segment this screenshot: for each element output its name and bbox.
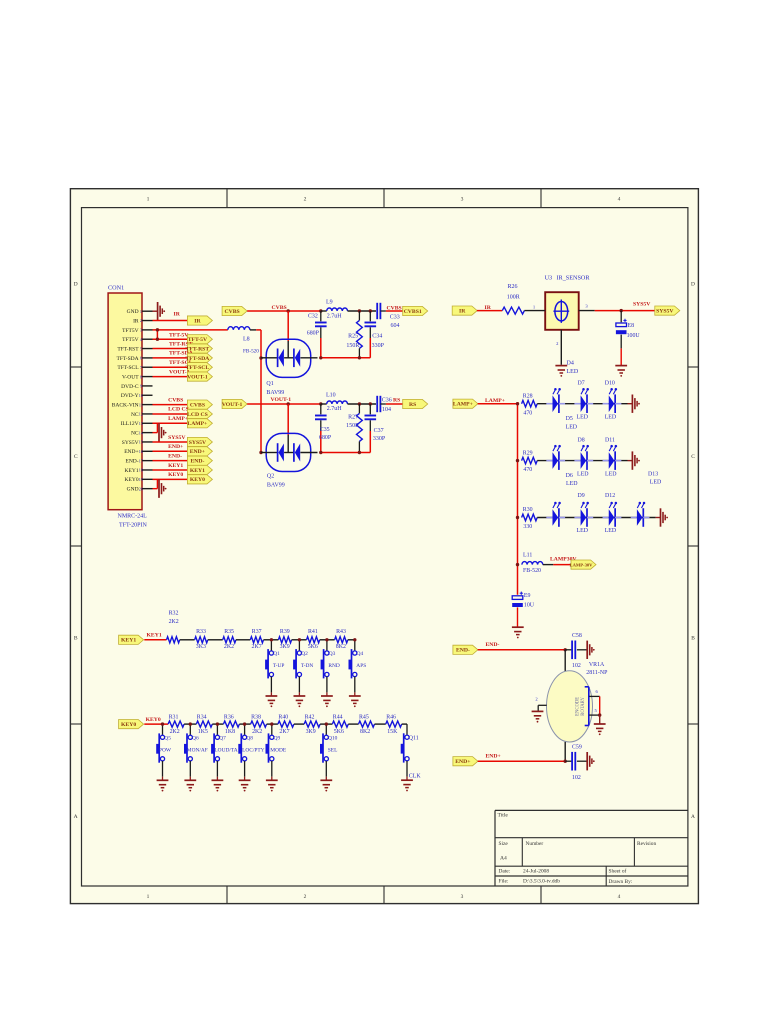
key switch Q3 RND <box>321 638 340 707</box>
svg-text:6: 6 <box>140 356 142 361</box>
svg-text:LED: LED <box>566 481 578 487</box>
svg-text:LAMP+: LAMP+ <box>168 416 188 422</box>
U3 pin 2 <box>556 330 561 365</box>
svg-text:END-: END- <box>125 459 138 465</box>
port TFT-RST <box>186 344 213 353</box>
svg-text:END+: END+ <box>190 449 205 455</box>
svg-text:BAV99: BAV99 <box>267 483 285 489</box>
key switch Q10 SEL <box>320 722 338 791</box>
wire L9 to C33 <box>348 309 377 312</box>
svg-text:3: 3 <box>461 197 464 203</box>
svg-text:IR_SENSOR: IR_SENSOR <box>557 274 591 281</box>
svg-text:102: 102 <box>572 775 581 781</box>
svg-text:2: 2 <box>140 318 142 323</box>
svg-text:FB-520: FB-520 <box>243 349 259 355</box>
VR1A pin 5 <box>589 708 599 715</box>
svg-text:BACK-VIN: BACK-VIN <box>112 403 139 409</box>
capacitor C33 <box>377 303 404 329</box>
wire END+ from pin 16 <box>153 450 188 452</box>
resistor R26 <box>502 284 524 314</box>
svg-text:E8: E8 <box>628 323 635 329</box>
svg-text:104: 104 <box>382 407 391 413</box>
wire KEY1 end corner <box>348 639 355 641</box>
svg-text:LED: LED <box>577 472 589 478</box>
capacitor E8 <box>616 311 641 365</box>
wire segment before R43 <box>320 639 335 641</box>
svg-text:LAMP+: LAMP+ <box>187 421 207 427</box>
svg-text:Number: Number <box>526 841 544 847</box>
svg-text:LED: LED <box>566 424 578 430</box>
svg-text:8: 8 <box>140 374 142 379</box>
wire L11 to port <box>543 564 571 566</box>
capacitor C59 <box>565 744 587 781</box>
svg-text:LED: LED <box>577 414 589 420</box>
svg-text:RS: RS <box>409 402 416 408</box>
svg-text:ILL12V: ILL12V <box>121 421 139 427</box>
LED D7 row y403 pos 2 <box>574 388 593 413</box>
key switch Q11 CLK <box>401 724 422 791</box>
svg-text:LED: LED <box>605 414 617 420</box>
svg-text:KEY1: KEY1 <box>168 463 183 469</box>
svg-text:C: C <box>691 454 695 460</box>
svg-text:3K9: 3K9 <box>306 729 316 735</box>
svg-text:BAV99: BAV99 <box>266 390 284 396</box>
svg-text:R39: R39 <box>280 629 290 635</box>
svg-text:LOUD/TA: LOUD/TA <box>214 747 237 753</box>
capacitor C37 <box>365 404 386 453</box>
wire CVBS from pin 11 <box>153 404 188 406</box>
svg-text:NMRC-24L: NMRC-24L <box>118 514 148 520</box>
svg-text:CVBS1: CVBS1 <box>387 305 405 311</box>
svg-text:LAMP-30V: LAMP-30V <box>570 563 594 568</box>
svg-text:CVBS: CVBS <box>190 403 205 409</box>
svg-text:2K2: 2K2 <box>169 619 179 625</box>
svg-text:D5: D5 <box>566 416 573 422</box>
svg-text:C36: C36 <box>382 398 392 404</box>
svg-text:D13: D13 <box>648 472 658 478</box>
wire TFT-SDA from pin 6 <box>153 357 188 359</box>
svg-text:C34: C34 <box>372 334 382 340</box>
port TFT-5V <box>187 335 212 344</box>
svg-text:330P: 330P <box>372 343 385 349</box>
port END+ <box>187 447 212 456</box>
svg-text:R33: R33 <box>196 629 206 635</box>
svg-text:24-Jul-2008: 24-Jul-2008 <box>523 869 549 875</box>
svg-text:RS: RS <box>393 397 400 403</box>
svg-text:T-UP: T-UP <box>273 663 284 669</box>
svg-text:8K2: 8K2 <box>336 644 346 650</box>
svg-text:END+: END+ <box>168 444 183 450</box>
label END- <box>486 642 500 648</box>
label END+ <box>168 444 183 450</box>
svg-text:TFT5V: TFT5V <box>122 337 139 343</box>
svg-text:A: A <box>691 814 695 820</box>
svg-text:SYS5V: SYS5V <box>656 309 674 315</box>
label KEY0 (row) <box>146 717 161 723</box>
label LCD CS <box>168 407 189 413</box>
svg-text:L11: L11 <box>523 552 532 558</box>
svg-text:IR: IR <box>133 318 139 324</box>
svg-text:ROTARY: ROTARY <box>581 696 586 715</box>
svg-text:Q2: Q2 <box>301 651 308 657</box>
svg-text:Revision: Revision <box>637 841 656 847</box>
wire bottom rail filter2 <box>319 451 370 454</box>
svg-text:END-: END- <box>456 648 470 654</box>
port LAMP-30V <box>570 560 596 569</box>
svg-text:Q11: Q11 <box>409 735 419 741</box>
svg-text:KEY0: KEY0 <box>125 477 139 483</box>
wire TFT5V pin4 <box>153 338 188 340</box>
svg-text:1: 1 <box>147 197 150 203</box>
label SYS5V <box>633 301 651 307</box>
svg-text:Q2: Q2 <box>267 474 274 480</box>
svg-text:1: 1 <box>147 894 150 900</box>
wire segment before R44 <box>320 723 332 725</box>
wire L9 segment black <box>321 310 327 312</box>
capacitor E9 <box>512 592 535 627</box>
resistor R30 <box>522 507 538 530</box>
port END- <box>187 456 212 465</box>
svg-text:3: 3 <box>140 328 142 333</box>
port LCD CS <box>187 409 212 418</box>
svg-text:LED: LED <box>605 472 617 478</box>
resistor R29 <box>522 450 538 473</box>
svg-text:KEY1: KEY1 <box>121 638 136 644</box>
label LAMP+ <box>168 416 188 422</box>
svg-text:150R: 150R <box>346 423 359 429</box>
ground VR1A pin 5 <box>594 724 606 735</box>
port TFT-SCL <box>186 363 213 372</box>
svg-text:R27: R27 <box>348 415 358 421</box>
svg-text:NC: NC <box>131 431 139 437</box>
svg-text:680P: 680P <box>319 435 332 441</box>
inductor L10 <box>326 393 348 413</box>
label KEY1 <box>168 463 183 469</box>
VR1A pin 6 <box>589 689 599 697</box>
svg-text:102: 102 <box>572 663 581 669</box>
wire END- <box>478 648 567 651</box>
svg-text:CVBS: CVBS <box>168 397 183 403</box>
svg-text:KEY1: KEY1 <box>190 468 205 474</box>
svg-text:IR: IR <box>459 309 466 315</box>
diode network Q1 BAV99 <box>261 339 318 396</box>
ground LED row y517 <box>656 508 668 526</box>
svg-text:LED: LED <box>577 528 589 534</box>
wire LAMP+ from pin 13 <box>153 422 188 424</box>
svg-text:R37: R37 <box>252 629 262 635</box>
LED D5 row y403 pos 1 <box>546 388 565 413</box>
svg-text:SYS5V: SYS5V <box>189 440 207 446</box>
capacitor C36 <box>377 396 403 413</box>
svg-text:LAMP+: LAMP+ <box>453 402 473 408</box>
inner border frame <box>82 208 688 886</box>
svg-text:2.7uH: 2.7uH <box>327 313 343 319</box>
label END+ <box>486 753 501 759</box>
svg-text:1: 1 <box>140 309 142 314</box>
wire KEY1 start <box>144 639 166 641</box>
svg-text:D12: D12 <box>605 493 615 499</box>
svg-text:RND: RND <box>328 663 339 669</box>
svg-text:2K2: 2K2 <box>170 729 180 735</box>
label KEY0 <box>168 472 183 478</box>
resistor R36 <box>223 714 239 734</box>
svg-text:IR: IR <box>194 318 201 324</box>
svg-text:TFT-SCL: TFT-SCL <box>117 365 139 371</box>
wire segment before R34 <box>184 723 196 725</box>
resistor R40 <box>278 714 294 734</box>
svg-text:DVD-Y: DVD-Y <box>121 393 139 399</box>
svg-text:100U: 100U <box>627 333 641 339</box>
svg-text:D6: D6 <box>566 473 573 479</box>
capacitor C35 <box>315 404 332 453</box>
svg-text:Q1: Q1 <box>273 651 280 657</box>
wire segment before R46 <box>375 723 386 725</box>
label IR <box>174 312 181 318</box>
port IR (CON1) <box>187 316 212 325</box>
wire END- from pin 17 <box>153 460 188 462</box>
svg-text:ENCODE: ENCODE <box>576 697 581 716</box>
ground at CON1 pin 20 <box>153 479 167 498</box>
label CVBS <box>272 305 287 311</box>
wire LAMP+ to rail <box>478 403 518 405</box>
port TFT-SDA <box>185 353 212 362</box>
port KEY1 (row) <box>119 635 144 644</box>
wire vertical rail x261 <box>259 330 262 454</box>
svg-text:Q5: Q5 <box>164 736 171 742</box>
svg-text:9: 9 <box>140 384 142 389</box>
svg-text:150R: 150R <box>346 343 359 349</box>
svg-text:8K2: 8K2 <box>360 729 370 735</box>
svg-text:470: 470 <box>523 467 532 473</box>
wire pin3 to SYS5V <box>595 309 655 312</box>
svg-text:4: 4 <box>618 894 621 900</box>
key switch Q1 T-UP <box>265 638 284 707</box>
wire segment before R36 <box>212 723 223 725</box>
svg-text:R31: R31 <box>169 714 179 720</box>
wire segment before R38 <box>239 723 250 725</box>
wire TFT-RST from pin 5 <box>153 348 188 350</box>
svg-text:LED: LED <box>605 528 617 534</box>
svg-text:R46: R46 <box>386 714 396 720</box>
svg-text:C37: C37 <box>374 428 384 434</box>
capacitor C32 <box>307 311 327 358</box>
wire VR1A pins 5-6 <box>598 696 601 723</box>
wire KEY0 from pin 19 <box>153 478 188 480</box>
svg-text:GND: GND <box>127 487 139 493</box>
svg-text:V-OUT: V-OUT <box>122 374 139 380</box>
svg-text:5K6: 5K6 <box>308 644 318 650</box>
wire END+ <box>478 760 567 763</box>
resistor R41 <box>307 629 320 650</box>
key switch Q2 T-DN <box>293 638 313 707</box>
wire TFT-SCL from pin 7 <box>153 366 188 368</box>
svg-text:R42: R42 <box>305 714 315 720</box>
IR sensor U3 <box>545 274 591 329</box>
svg-text:R30: R30 <box>523 507 533 513</box>
port CVBS1 <box>403 306 428 315</box>
svg-text:2K2: 2K2 <box>252 729 262 735</box>
svg-text:Q6: Q6 <box>192 736 199 742</box>
wire VOUT-1 from pin 8 <box>153 376 188 378</box>
border zone ticks <box>70 189 698 904</box>
diode network Q2 BAV99 <box>261 433 318 488</box>
label TFT-RST <box>169 341 193 347</box>
resistor R39 <box>278 629 291 650</box>
LED LED row y517 pos 1 <box>546 502 565 527</box>
svg-text:5: 5 <box>140 346 142 351</box>
ground below U3 pin 2 <box>555 360 578 376</box>
port SYS5V <box>187 437 212 446</box>
CON1 pin stubs <box>142 311 153 488</box>
svg-text:KEY0: KEY0 <box>190 477 205 483</box>
svg-text:DVD-C: DVD-C <box>121 384 139 390</box>
wire IR from pin 2 <box>153 320 188 322</box>
wire LED supply rail <box>516 402 519 595</box>
resistor R38 <box>251 714 267 734</box>
label TFT-SCL <box>169 360 193 366</box>
svg-text:Sheet of: Sheet of <box>609 868 627 875</box>
svg-text:VOUT-1: VOUT-1 <box>187 374 208 380</box>
svg-text:KEY0: KEY0 <box>146 717 161 723</box>
svg-text:LCD CS: LCD CS <box>168 407 189 413</box>
capacitor C34 <box>365 311 385 358</box>
svg-text:D: D <box>691 282 695 288</box>
svg-text:KEY1: KEY1 <box>147 632 162 638</box>
label LAMP+ (LED rows) <box>485 398 505 404</box>
wire SYS5V from pin 15 <box>153 441 188 443</box>
wire L8 to rail corner <box>250 329 261 331</box>
title block <box>495 810 688 886</box>
label END- <box>168 453 182 459</box>
svg-text:LED: LED <box>567 369 579 375</box>
svg-text:MON/AF: MON/AF <box>187 747 208 753</box>
svg-text:CLK: CLK <box>409 774 422 780</box>
wire segment before R37 <box>236 639 250 641</box>
ground below E9 <box>512 627 524 638</box>
port KEY0 <box>187 475 212 484</box>
svg-text:END-: END- <box>168 453 182 459</box>
svg-text:C59: C59 <box>572 744 582 750</box>
svg-text:Drawn By:: Drawn By: <box>609 879 633 885</box>
resistor R28 <box>522 393 538 416</box>
svg-text:5K6: 5K6 <box>334 729 344 735</box>
svg-text:Q3: Q3 <box>329 651 336 657</box>
svg-text:APS: APS <box>356 663 366 669</box>
svg-text:L10: L10 <box>326 393 336 399</box>
resistor R37 <box>250 629 263 650</box>
svg-text:E9: E9 <box>524 593 531 599</box>
svg-text:L8: L8 <box>243 337 250 343</box>
svg-text:2.7uH: 2.7uH <box>327 406 343 412</box>
svg-text:C32: C32 <box>308 313 318 319</box>
ground LED row y403 <box>628 395 640 413</box>
svg-text:C58: C58 <box>572 633 582 639</box>
svg-text:KEY0: KEY0 <box>121 722 136 728</box>
port END- <box>453 645 478 654</box>
label LAMP30V <box>550 556 577 562</box>
svg-text:100R: 100R <box>507 295 520 301</box>
LED D12 row y517 pos 3 <box>603 502 622 527</box>
svg-text:D8: D8 <box>578 437 585 443</box>
wire LED row y517 <box>537 517 655 519</box>
svg-text:TFT-SDA: TFT-SDA <box>116 356 138 362</box>
resistor R35 <box>223 629 236 650</box>
svg-text:R28: R28 <box>523 393 533 399</box>
svg-text:IR: IR <box>174 312 181 318</box>
svg-text:KEY1: KEY1 <box>125 468 139 474</box>
svg-text:Title: Title <box>498 813 509 819</box>
svg-text:2K2: 2K2 <box>224 644 234 650</box>
wire segment before R42 <box>294 723 304 725</box>
resistor R33 <box>195 629 208 650</box>
svg-text:470: 470 <box>523 410 532 416</box>
port LAMP+ <box>187 419 212 428</box>
svg-text:B: B <box>691 636 695 642</box>
wire segment before R39 <box>264 639 279 641</box>
svg-text:2K7: 2K7 <box>279 729 289 735</box>
port END+ <box>453 757 478 766</box>
svg-text:GND: GND <box>127 309 139 315</box>
svg-text:D11: D11 <box>605 437 615 443</box>
svg-text:7: 7 <box>140 365 142 370</box>
wire KEY0 start <box>144 723 168 725</box>
ground LED row y460 <box>628 451 640 469</box>
svg-text:R44: R44 <box>333 714 343 720</box>
svg-text:FB-520: FB-520 <box>523 568 541 574</box>
border zone labels <box>74 197 696 900</box>
svg-text:R26: R26 <box>508 284 518 290</box>
svg-text:1K8: 1K8 <box>225 729 235 735</box>
svg-text:A: A <box>74 814 78 820</box>
port IR (sensor input) <box>452 306 477 315</box>
LED D11 row y460 pos 3 <box>603 445 622 470</box>
key switch Q6 MON/AF <box>184 722 208 791</box>
svg-text:A4: A4 <box>500 856 507 862</box>
port LAMP+ (LED rows) <box>453 399 478 408</box>
svg-text:LED: LED <box>650 479 662 485</box>
svg-text:TFT5V: TFT5V <box>122 328 139 334</box>
port SYS5V (right) <box>655 306 680 315</box>
LED D8 row y460 pos 2 <box>574 445 593 470</box>
LED row1 labels <box>566 380 617 430</box>
svg-text:1K5: 1K5 <box>198 729 208 735</box>
label KEY1 (row) <box>147 632 162 638</box>
svg-text:3: 3 <box>461 894 464 900</box>
svg-text:3K3: 3K3 <box>196 644 206 650</box>
encoder VR1A <box>547 650 609 761</box>
svg-text:R36: R36 <box>224 714 234 720</box>
wire segment before R40 <box>267 723 278 725</box>
svg-text:Date:: Date: <box>499 869 511 875</box>
svg-text:MODE: MODE <box>270 747 287 753</box>
svg-text:330P: 330P <box>373 436 386 442</box>
svg-text:C: C <box>74 454 78 460</box>
wire VOUT-1 horizontal <box>247 402 322 405</box>
svg-text:Q10: Q10 <box>328 736 338 742</box>
capacitor C58 <box>565 633 587 669</box>
wire L10 segment black <box>321 403 327 405</box>
label IR (sensor) <box>485 305 492 311</box>
ground right of C58 <box>587 641 594 659</box>
svg-text:NC: NC <box>131 412 139 418</box>
svg-text:R43: R43 <box>336 629 346 635</box>
wire IR port to R26 <box>477 310 502 312</box>
svg-text:3K9: 3K9 <box>280 644 290 650</box>
inductor L11 <box>522 552 543 574</box>
LED LED row y517 pos 4 <box>631 502 650 527</box>
svg-text:END-: END- <box>486 642 500 648</box>
svg-text:VR1A: VR1A <box>589 662 605 668</box>
